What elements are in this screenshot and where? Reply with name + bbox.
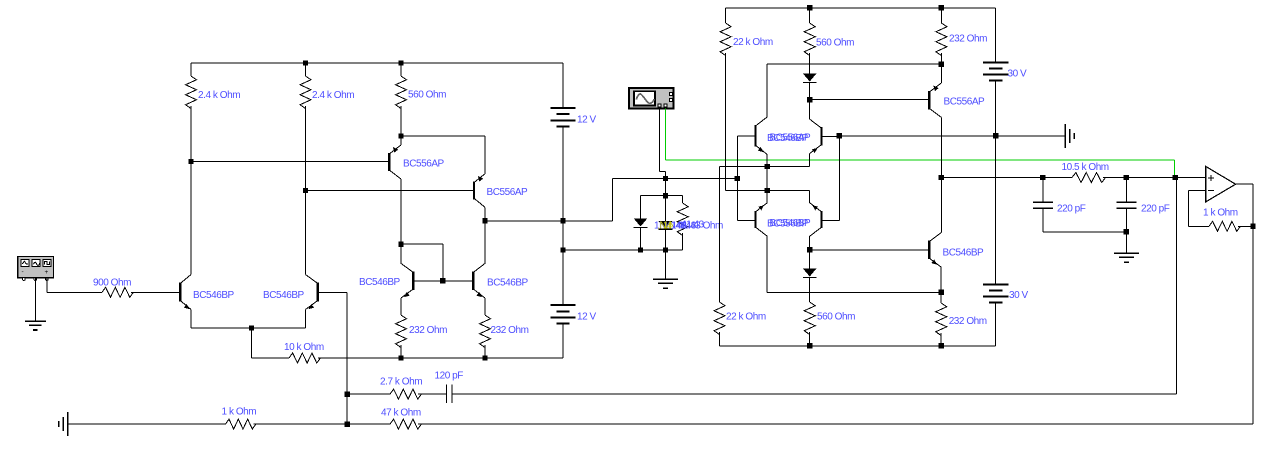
svg-text:12 V: 12 V (577, 115, 597, 126)
svg-text:220 pF: 220 pF (1141, 204, 1170, 215)
svg-text:BC546BP: BC546BP (359, 277, 401, 288)
svg-text:1 k Ohm: 1 k Ohm (1203, 208, 1238, 219)
svg-text:30 V: 30 V (1009, 290, 1029, 301)
svg-text:BC556AP: BC556AP (770, 133, 812, 144)
svg-text:900 Ohm: 900 Ohm (93, 278, 131, 289)
svg-text:BC546BP: BC546BP (263, 290, 305, 301)
svg-text:BC556AP: BC556AP (944, 97, 986, 108)
svg-text:2.4 k Ohm: 2.4 k Ohm (312, 90, 354, 101)
svg-text:2.4 k Ohm: 2.4 k Ohm (198, 90, 240, 101)
svg-text:BC546BP: BC546BP (943, 248, 985, 259)
svg-text:-: - (22, 269, 24, 276)
svg-text:22 k Ohm: 22 k Ohm (733, 37, 773, 48)
svg-text:232 Ohm: 232 Ohm (949, 34, 987, 45)
svg-text:232 Ohm: 232 Ohm (409, 325, 447, 336)
svg-text:22 k Ohm: 22 k Ohm (726, 312, 766, 323)
svg-text:BC546BP: BC546BP (193, 290, 235, 301)
svg-text:BC556AP: BC556AP (487, 187, 529, 198)
svg-text:+: + (45, 269, 49, 276)
svg-text:232 Ohm: 232 Ohm (949, 316, 987, 327)
svg-text:BC546BP: BC546BP (770, 218, 812, 229)
svg-text:120 pF: 120 pF (435, 371, 464, 382)
svg-text:47 k Ohm: 47 k Ohm (381, 408, 421, 419)
svg-text:560 Ohm: 560 Ohm (408, 90, 446, 101)
svg-text:1 k Ohm: 1 k Ohm (222, 407, 257, 418)
svg-text:41.43: 41.43 (681, 219, 705, 230)
svg-text:12 V: 12 V (577, 312, 597, 323)
svg-text:2.7 k Ohm: 2.7 k Ohm (380, 377, 422, 388)
svg-text:10 k Ohm: 10 k Ohm (284, 342, 324, 353)
svg-text:560 Ohm: 560 Ohm (816, 38, 854, 49)
svg-text:BC546BP: BC546BP (487, 278, 529, 289)
svg-text:30 V: 30 V (1008, 69, 1028, 80)
svg-text:560 Ohm: 560 Ohm (817, 312, 855, 323)
svg-text:220 pF: 220 pF (1057, 204, 1086, 215)
svg-text:10.5 k Ohm: 10.5 k Ohm (1062, 162, 1109, 173)
svg-text:232 Ohm: 232 Ohm (491, 325, 529, 336)
svg-text:BC556AP: BC556AP (403, 159, 445, 170)
